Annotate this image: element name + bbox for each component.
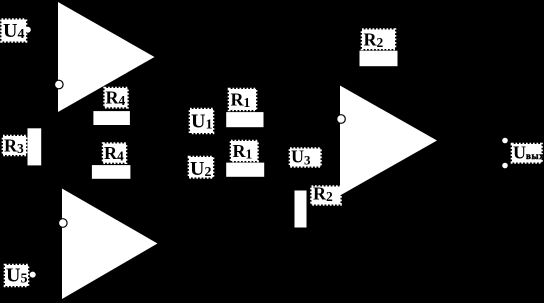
- inverting input circle of op-amp A2: [59, 219, 68, 228]
- op-amp A1 (top-left): [58, 2, 155, 112]
- label R1 (lower): [231, 141, 258, 162]
- label U5: [5, 265, 28, 287]
- resistor R1 body (lower): [226, 163, 264, 177]
- op-amp A3 (right): [340, 86, 437, 196]
- resistor R4 body (lower): [92, 165, 130, 179]
- label Uout: [512, 142, 544, 162]
- label R4 (upper): [105, 88, 128, 109]
- node dot at U4 input: [25, 27, 31, 33]
- inverting input circle of op-amp A1: [55, 80, 64, 89]
- label U2: [189, 157, 213, 180]
- resistor R2 body (vertical, bottom): [295, 191, 307, 228]
- resistor R4 body (upper): [93, 111, 129, 125]
- op-amp A2 (bottom-left): [62, 189, 158, 300]
- label R3: [3, 136, 26, 157]
- resistor R3 body (vertical): [28, 128, 42, 165]
- inverting input circle of op-amp A3: [337, 115, 346, 124]
- label U4: [2, 20, 27, 43]
- resistor R1 body (upper): [226, 112, 263, 127]
- node dot at output -: [502, 163, 508, 169]
- label R2 (top): [362, 30, 395, 51]
- node dot at U5 input: [30, 272, 36, 278]
- label R1 (upper): [229, 89, 256, 110]
- node dot at output +: [502, 138, 508, 144]
- label U3: [290, 147, 321, 168]
- label U1: [190, 109, 213, 133]
- label R4 (lower): [103, 143, 126, 164]
- resistor R2 body (top): [360, 51, 398, 66]
- label R2 (bottom): [312, 184, 341, 205]
